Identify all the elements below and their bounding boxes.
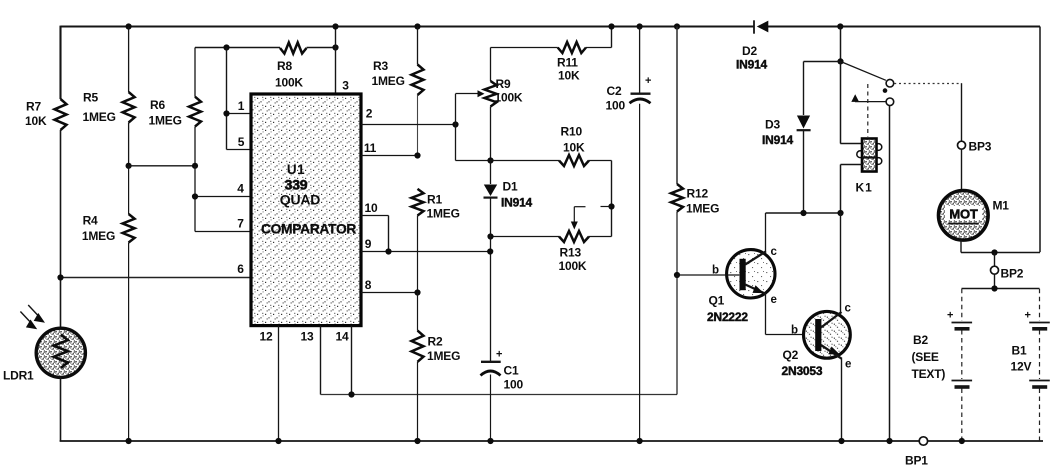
resistor R12 — [676, 27, 678, 185]
resistor R5 — [128, 27, 130, 93]
svg-text:1MEG: 1MEG — [149, 114, 182, 128]
battery B2 dashed leads — [961, 289, 963, 321]
node junction R9 bottom / R10 left — [487, 157, 493, 163]
svg-text:BP3: BP3 — [969, 140, 992, 154]
op-amp U1 comparator box — [251, 94, 361, 326]
svg-text:+: + — [1025, 310, 1031, 322]
node junction R11 top rail — [608, 23, 614, 29]
svg-text:K1: K1 — [856, 181, 873, 195]
svg-text:1MEG: 1MEG — [83, 110, 116, 124]
wire pin12 to ground — [278, 326, 280, 441]
node junction D3 bottom — [800, 210, 806, 216]
wire coil return — [841, 164, 863, 166]
resistor R11 — [491, 47, 558, 49]
svg-text:10K: 10K — [25, 114, 47, 128]
svg-text:e: e — [771, 294, 777, 306]
svg-text:D1: D1 — [503, 179, 518, 193]
node junction R2 ground — [414, 438, 420, 444]
battery B1 dashed leads — [1039, 289, 1041, 321]
svg-text:R1: R1 — [427, 193, 442, 207]
svg-text:b: b — [791, 325, 798, 337]
wire to D3 — [804, 61, 841, 63]
node junction pin1 — [223, 110, 229, 116]
light arrow 1 into LDR1 — [20, 312, 33, 326]
svg-text:2N3053: 2N3053 — [782, 364, 823, 378]
wire output bus riser — [676, 275, 678, 395]
capacitor C1 — [481, 361, 501, 363]
wire pin2 branch — [361, 124, 456, 126]
wire R10 right down — [611, 161, 613, 237]
node junction pin9/pin10 — [385, 248, 391, 254]
diode D3 — [803, 62, 805, 116]
svg-text:R5: R5 — [83, 91, 98, 105]
svg-text:C1: C1 — [504, 364, 519, 378]
svg-text:1: 1 — [238, 99, 245, 113]
svg-text:QUAD: QUAD — [280, 192, 321, 208]
potentiometer R13 — [491, 236, 560, 238]
node junction R5 bottom — [126, 163, 132, 169]
node junction R5 top rail — [126, 23, 132, 29]
binding post BP3 — [958, 141, 966, 149]
wire top supply rail (right part) — [768, 26, 1040, 28]
wire pin13 down — [320, 326, 322, 395]
svg-text:6: 6 — [237, 262, 244, 276]
svg-text:+: + — [947, 310, 953, 322]
relay contact pivot dot — [883, 88, 888, 93]
wire NC contact down to ground — [889, 106, 891, 441]
wire NO contact to BP3 dashed — [894, 83, 961, 85]
node junction R12 top rail — [674, 23, 680, 29]
diode D2 — [753, 20, 755, 33]
svg-text:13: 13 — [301, 330, 314, 344]
transistor Q2 — [804, 311, 851, 358]
node junction pin9 / C1 — [487, 248, 493, 254]
svg-text:R8: R8 — [277, 59, 292, 73]
svg-text:100K: 100K — [495, 91, 523, 105]
resistor R2 — [417, 293, 419, 331]
svg-text:1MEG: 1MEG — [686, 202, 719, 216]
node junction pin2 / R9 wiper — [452, 121, 458, 127]
wire pin7 branch — [195, 231, 251, 233]
resistor R6 — [194, 48, 196, 97]
svg-text:+: + — [496, 349, 502, 361]
wire bottom ground rail — [60, 440, 1043, 442]
battery B2 cells — [952, 322, 973, 324]
svg-text:339: 339 — [285, 177, 308, 193]
node junction R12 / Q1 base / output bus — [674, 272, 680, 278]
svg-text:M1: M1 — [993, 199, 1010, 213]
svg-text:8: 8 — [365, 278, 372, 292]
node junction R6 bottom — [192, 163, 198, 169]
svg-text:COMPARATOR: COMPARATOR — [261, 222, 356, 237]
node junction R13 wiper tap — [608, 203, 614, 209]
svg-text:4: 4 — [237, 182, 244, 196]
node junction C2 top rail — [637, 23, 643, 29]
arrow R9 wiper — [478, 90, 485, 97]
svg-text:11: 11 — [364, 141, 377, 155]
svg-text:14: 14 — [336, 330, 349, 344]
potentiometer R9 — [490, 48, 492, 82]
svg-text:12V: 12V — [1011, 360, 1032, 374]
wire coil feed — [840, 61, 842, 143]
svg-text:9: 9 — [365, 237, 372, 251]
node junction R3 top rail — [414, 23, 420, 29]
svg-text:IN914: IN914 — [762, 133, 794, 147]
resistor R4 — [128, 166, 130, 214]
node junction R6 feeder — [223, 44, 229, 50]
svg-text:7: 7 — [237, 217, 244, 231]
wire R13 wiper stub — [601, 206, 612, 208]
node junction C2 ground — [637, 438, 643, 444]
svg-text:R4: R4 — [83, 214, 98, 228]
wire motor bottom to right rail — [961, 252, 1040, 254]
node junction Q2 emitter ground — [838, 438, 844, 444]
capacitor C2 — [639, 27, 641, 94]
svg-text:2: 2 — [366, 107, 373, 121]
wire pin9 branch — [361, 251, 490, 253]
svg-text:BP1: BP1 — [905, 454, 928, 468]
svg-text:100K: 100K — [275, 76, 303, 90]
wire pin6 line — [61, 277, 252, 279]
wire pin5 branch — [227, 149, 252, 151]
node junction BP2 bottom — [991, 285, 997, 291]
photocell LDR1 — [36, 328, 85, 377]
node junction pin3 top rail — [332, 23, 338, 29]
wire top supply rail (left part) — [61, 26, 755, 28]
svg-text:R11: R11 — [557, 56, 578, 70]
svg-text:R10: R10 — [561, 125, 583, 139]
light arrow 2 into LDR1 — [28, 305, 41, 319]
svg-text:D2: D2 — [742, 44, 757, 58]
svg-text:LDR1: LDR1 — [3, 369, 34, 383]
svg-text:10K: 10K — [563, 141, 585, 155]
wire battery bus — [962, 288, 1040, 290]
wire left rail lower — [60, 377, 62, 441]
resistor R7 — [55, 99, 67, 130]
wire pin3 vertical — [335, 27, 337, 95]
svg-text:IN914: IN914 — [501, 195, 533, 209]
resistor R1 — [412, 189, 424, 216]
svg-text:10K: 10K — [558, 69, 580, 83]
relay contact NC — [886, 98, 894, 106]
svg-text:BP2: BP2 — [1001, 267, 1024, 281]
relay armature arrow — [851, 94, 859, 102]
svg-text:TEXT): TEXT) — [912, 367, 946, 381]
resistor R8 — [280, 43, 307, 54]
node junction relay branch top rail — [837, 23, 843, 29]
svg-text:+: + — [645, 75, 651, 87]
resistor R3 — [417, 27, 419, 65]
svg-text:c: c — [845, 303, 852, 315]
relay switch arm — [840, 61, 886, 80]
relay mechanical link dashed — [867, 84, 869, 137]
wire pin1/pin5 feeder horizontal — [195, 47, 280, 49]
svg-text:R12: R12 — [687, 187, 709, 201]
svg-text:R6: R6 — [150, 98, 165, 112]
svg-text:D3: D3 — [765, 118, 780, 132]
svg-text:2N2222: 2N2222 — [707, 310, 748, 324]
wire R5-R6 bottom link — [129, 165, 195, 167]
svg-text:1MEG: 1MEG — [372, 74, 405, 88]
svg-text:1MEG: 1MEG — [427, 349, 460, 363]
battery B1 cells — [1029, 322, 1050, 324]
svg-text:U1: U1 — [287, 162, 305, 177]
node junction D3 top — [837, 58, 843, 64]
wire pin11 branch — [361, 155, 418, 157]
node junction R13 left — [487, 233, 493, 239]
svg-text:10: 10 — [365, 201, 378, 215]
wire left rail middle — [60, 130, 62, 329]
wire R9 wiper arm — [455, 94, 457, 125]
arrow R13 wiper — [573, 207, 575, 222]
resistor R10 — [491, 160, 560, 162]
transistor Q1 — [727, 250, 775, 298]
node junction B2 ground — [959, 438, 965, 444]
svg-text:100K: 100K — [559, 259, 587, 273]
svg-text:100: 100 — [504, 378, 524, 392]
node junction coil / collectors — [837, 210, 843, 216]
svg-text:IN914: IN914 — [736, 58, 768, 72]
svg-text:12: 12 — [260, 330, 273, 344]
svg-text:R9: R9 — [496, 77, 511, 91]
node junction pin14 bus — [348, 391, 354, 397]
svg-text:1MEG: 1MEG — [82, 229, 115, 243]
wire left rail upper — [59, 26, 61, 99]
svg-text:Q1: Q1 — [709, 294, 725, 308]
node junction R8 right / pin3 — [332, 44, 338, 50]
binding post BP2 — [994, 253, 996, 289]
svg-text:5: 5 — [238, 135, 245, 149]
binding post BP1 — [919, 437, 927, 445]
wire right rail — [1039, 27, 1041, 253]
wire pin8 branch — [361, 292, 418, 294]
svg-text:1MEG: 1MEG — [427, 207, 460, 221]
relay contact NO — [886, 79, 894, 87]
svg-text:B1: B1 — [1012, 344, 1027, 358]
wire pin14 down — [351, 326, 353, 395]
node junction C1 ground — [487, 438, 493, 444]
svg-text:R2: R2 — [428, 335, 443, 349]
node junction pin12 ground — [275, 438, 281, 444]
wire motor bottom — [960, 240, 962, 253]
diode D1 — [490, 161, 492, 185]
node junction pin6 left rail — [57, 274, 63, 280]
wire Q1 base — [677, 274, 739, 276]
svg-text:R7: R7 — [26, 100, 41, 114]
svg-text:(SEE: (SEE — [912, 350, 939, 364]
wire Q1 collector to coil node — [766, 212, 841, 214]
wire BP3 riser — [961, 83, 963, 191]
svg-text:MOT: MOT — [949, 207, 978, 222]
svg-text:100: 100 — [606, 99, 626, 113]
svg-text:c: c — [771, 246, 778, 258]
node junction NC line ground — [886, 438, 892, 444]
wire pin1 branch — [226, 48, 228, 150]
svg-text:Q2: Q2 — [783, 348, 799, 362]
node junction BP2 top — [991, 249, 997, 255]
relay K1 coil — [857, 151, 864, 158]
svg-text:C2: C2 — [607, 84, 622, 98]
wire pin10 branch — [361, 215, 389, 217]
svg-text:R3: R3 — [373, 59, 388, 73]
motor M1 — [939, 191, 989, 241]
node junction pin11 / R3 / R1 — [414, 152, 420, 158]
svg-text:B2: B2 — [913, 333, 928, 347]
wire pins13-14 output bus to Q1 base node — [321, 394, 678, 396]
wire collector bus down to Q2 — [840, 213, 842, 312]
wire relay branch down — [840, 27, 842, 62]
svg-text:e: e — [845, 359, 851, 371]
wire pin4 branch — [194, 166, 196, 232]
wire pin2 node down to R10 line — [455, 125, 457, 161]
node junction pin8 / R1 / R2 — [414, 289, 420, 295]
wire Q1 emitter to Q2 base — [765, 294, 767, 335]
svg-text:R13: R13 — [560, 246, 582, 260]
node junction pin4 — [192, 193, 198, 199]
svg-text:3: 3 — [342, 79, 349, 93]
node junction R4 ground — [126, 438, 132, 444]
